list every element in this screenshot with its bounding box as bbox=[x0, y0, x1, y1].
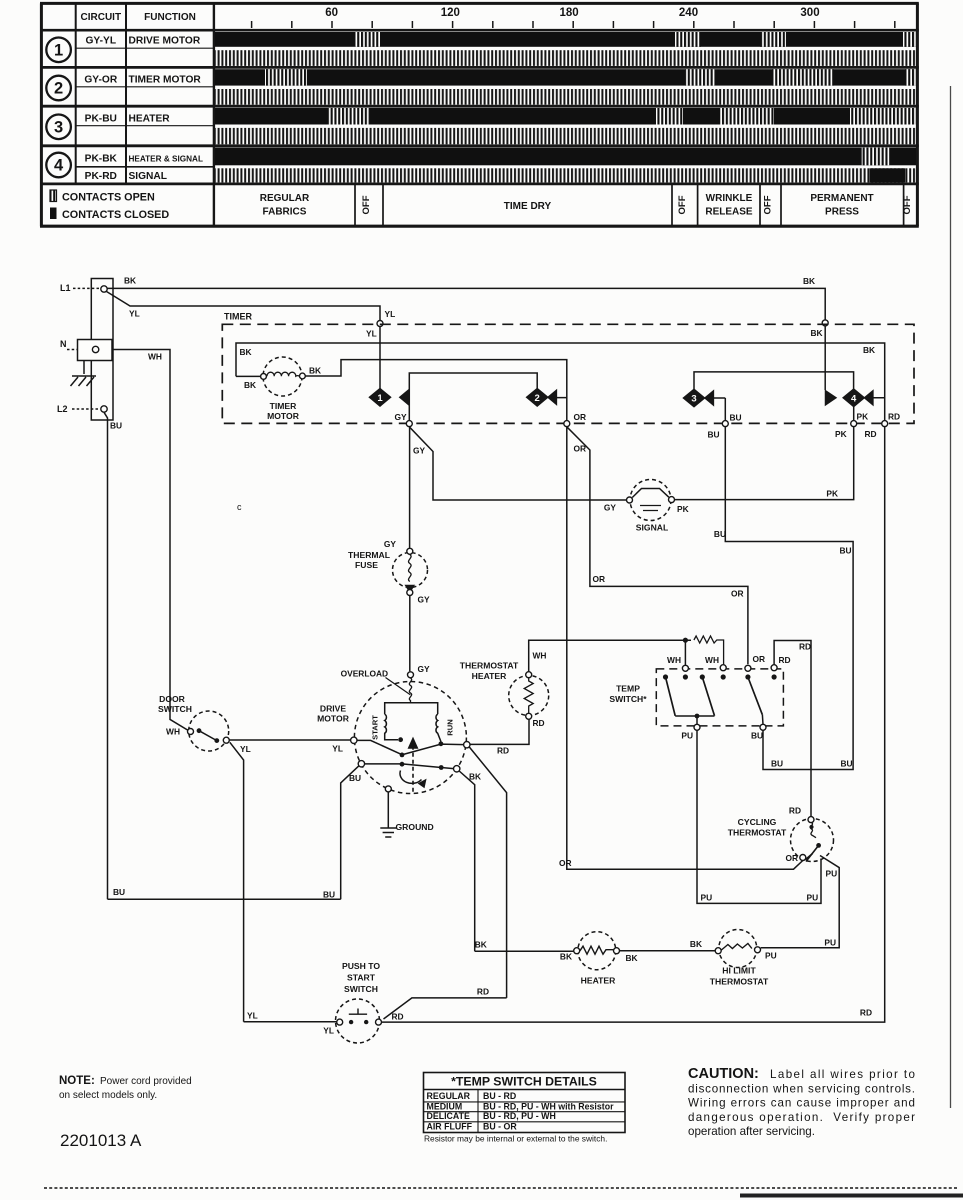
svg-text:1: 1 bbox=[54, 42, 63, 60]
motor terminal YL bbox=[332, 737, 357, 753]
svg-text:PU: PU bbox=[681, 731, 693, 741]
svg-text:Label all wires prior to: Label all wires prior to bbox=[770, 1068, 915, 1081]
svg-text:START: START bbox=[347, 973, 376, 983]
svg-text:BK: BK bbox=[560, 952, 572, 962]
resistor on WH line (temp switch) bbox=[683, 636, 724, 665]
wire WH: thermostat heater to temp switch bbox=[529, 640, 691, 671]
svg-text:PU: PU bbox=[765, 951, 777, 961]
svg-text:3: 3 bbox=[691, 394, 696, 405]
wire YL: door switch down to push-to-start bbox=[230, 742, 258, 1022]
svg-text:WH: WH bbox=[148, 352, 162, 362]
svg-text:DOOR: DOOR bbox=[159, 694, 186, 704]
temp switch blade 1 bbox=[666, 677, 676, 716]
svg-text:PK: PK bbox=[677, 504, 689, 514]
run winding bbox=[411, 703, 441, 742]
svg-text:BK: BK bbox=[244, 380, 256, 390]
svg-text:RD: RD bbox=[888, 412, 900, 422]
svg-text:PUSH TO: PUSH TO bbox=[342, 961, 380, 971]
svg-text:RD: RD bbox=[789, 806, 801, 816]
svg-text:GY: GY bbox=[418, 664, 431, 674]
svg-text:BU - RD: BU - RD bbox=[483, 1091, 516, 1101]
wire RD: motor down to push-to-start link bbox=[469, 747, 506, 998]
svg-text:RD: RD bbox=[392, 1012, 404, 1022]
node N terminal bbox=[60, 339, 112, 361]
svg-text:*TEMP SWITCH DETAILS: *TEMP SWITCH DETAILS bbox=[451, 1075, 597, 1089]
svg-text:240: 240 bbox=[679, 7, 698, 19]
node L1 terminal bbox=[60, 283, 107, 293]
hi-limit thermostat bbox=[690, 930, 777, 987]
cycle legend row bbox=[354, 184, 356, 226]
start winding bbox=[385, 703, 411, 740]
temp switch BU output bbox=[751, 715, 766, 741]
contact 4 (timer cam switch) bbox=[826, 389, 885, 421]
wire RD: bottom rail to right side bbox=[382, 427, 885, 1022]
svg-text:START: START bbox=[371, 715, 380, 740]
svg-text:TIME DRY: TIME DRY bbox=[504, 201, 552, 212]
wire BK: node to contact 4 left bbox=[824, 326, 826, 390]
svg-text:CYCLING: CYCLING bbox=[738, 817, 777, 827]
svg-text:BU: BU bbox=[113, 887, 125, 897]
svg-text:TIMER MOTOR: TIMER MOTOR bbox=[129, 75, 202, 86]
svg-text:YL: YL bbox=[247, 1011, 258, 1021]
drive motor bbox=[317, 664, 481, 837]
wire YL: to push-to-start bbox=[244, 1021, 337, 1023]
svg-text:BK: BK bbox=[811, 328, 823, 338]
svg-text:THERMOSTAT: THERMOSTAT bbox=[728, 828, 787, 838]
svg-text:YL: YL bbox=[385, 309, 396, 319]
svg-text:OFF: OFF bbox=[361, 195, 372, 214]
node PK below contact 4 bbox=[835, 412, 868, 440]
wire RD: motor to thermostat heater bbox=[470, 720, 529, 756]
svg-text:HEATER: HEATER bbox=[129, 114, 171, 125]
thermal fuse bbox=[348, 548, 430, 671]
svg-text:OFF: OFF bbox=[763, 195, 774, 214]
svg-text:BK: BK bbox=[124, 276, 136, 286]
svg-text:MEDIUM: MEDIUM bbox=[427, 1101, 463, 1111]
wire BK: heater to hi-limit bbox=[620, 950, 715, 952]
temp switch terminal RD bbox=[771, 655, 791, 671]
svg-text:THERMOSTAT: THERMOSTAT bbox=[460, 661, 519, 671]
svg-text:BK: BK bbox=[863, 345, 875, 355]
svg-text:FUSE: FUSE bbox=[355, 560, 378, 570]
node OR below contact 2 bbox=[564, 412, 586, 427]
wire BU: motor to left bottom rail bbox=[323, 766, 359, 900]
svg-text:N: N bbox=[60, 339, 67, 349]
motor terminal BK bbox=[454, 766, 482, 782]
door switch bbox=[158, 694, 251, 754]
svg-text:RD: RD bbox=[860, 1008, 872, 1018]
svg-text:OR: OR bbox=[785, 853, 798, 863]
svg-text:2: 2 bbox=[54, 80, 63, 98]
svg-text:RELEASE: RELEASE bbox=[705, 207, 753, 218]
svg-text:SWITCH: SWITCH bbox=[158, 704, 192, 714]
svg-text:SIGNAL: SIGNAL bbox=[636, 523, 668, 533]
scan artifact: right edge line bbox=[950, 86, 952, 1108]
svg-text:BK: BK bbox=[469, 772, 481, 782]
svg-text:120: 120 bbox=[441, 7, 460, 19]
centrifugal switch blade lower bbox=[365, 764, 454, 769]
svg-text:YL: YL bbox=[323, 1026, 334, 1036]
contacts legend bbox=[50, 190, 57, 202]
svg-text:HEATER & SIGNAL: HEATER & SIGNAL bbox=[129, 155, 203, 164]
svg-text:BK: BK bbox=[626, 953, 638, 963]
svg-text:GY: GY bbox=[413, 446, 426, 456]
svg-text:2201013 A: 2201013 A bbox=[60, 1131, 142, 1150]
thermostat heater bbox=[460, 661, 549, 729]
svg-text:CIRCUIT: CIRCUIT bbox=[81, 12, 122, 23]
svg-text:PK: PK bbox=[857, 412, 869, 422]
svg-text:BK: BK bbox=[803, 276, 815, 286]
svg-text:SIGNAL: SIGNAL bbox=[129, 171, 168, 182]
temp switch blade 2 bbox=[702, 677, 714, 716]
temp switch terminal WH 1 bbox=[667, 655, 688, 671]
signal buzzer bbox=[627, 480, 689, 533]
svg-text:BU - RD, PU - WH with Resistor: BU - RD, PU - WH with Resistor bbox=[483, 1101, 614, 1111]
node L2 terminal bbox=[57, 404, 107, 414]
svg-text:HEATER: HEATER bbox=[472, 671, 507, 681]
svg-text:c: c bbox=[237, 502, 242, 512]
svg-text:RD: RD bbox=[497, 746, 509, 756]
svg-text:GY-OR: GY-OR bbox=[84, 75, 117, 86]
wire BK: timer motor to contact 2 bbox=[305, 360, 567, 392]
svg-text:GY-YL: GY-YL bbox=[86, 36, 117, 47]
svg-text:PRESS: PRESS bbox=[825, 207, 859, 218]
wire BK: to heater bbox=[475, 950, 574, 952]
wire GY: node down to thermal fuse bbox=[384, 427, 410, 549]
svg-text:GY: GY bbox=[604, 503, 617, 513]
temp switch PU output bbox=[675, 714, 714, 741]
svg-text:BU: BU bbox=[730, 413, 742, 423]
svg-text:4: 4 bbox=[54, 157, 64, 175]
svg-text:RD: RD bbox=[799, 642, 811, 652]
svg-text:TIMER: TIMER bbox=[224, 312, 252, 322]
scan artifact: bottom perforation line bbox=[44, 1187, 958, 1189]
svg-text:BU: BU bbox=[751, 731, 763, 741]
svg-text:RD: RD bbox=[533, 718, 545, 728]
svg-text:BU: BU bbox=[708, 430, 720, 440]
temp switch blade 3 bbox=[748, 677, 763, 715]
svg-text:BU: BU bbox=[840, 546, 852, 556]
svg-text:BU: BU bbox=[841, 759, 853, 769]
cycling thermostat bbox=[728, 806, 834, 863]
wire RD: temp switch to cycling thermostat bbox=[774, 641, 811, 817]
svg-text:DELICATE: DELICATE bbox=[427, 1111, 470, 1121]
svg-text:BU: BU bbox=[110, 421, 122, 431]
temp switch terminal OR bbox=[745, 665, 751, 671]
svg-text:PK-BU: PK-BU bbox=[85, 114, 117, 125]
wire BU: L2 down left side bbox=[104, 412, 125, 899]
node BU below contact 3 bbox=[708, 413, 742, 440]
wire: link contact3 top to contact4 top bbox=[694, 372, 854, 389]
wire YL: node to contact 1 bbox=[379, 327, 381, 389]
svg-text:YL: YL bbox=[332, 744, 343, 754]
svg-text:PU: PU bbox=[807, 893, 819, 903]
svg-text:THERMAL: THERMAL bbox=[348, 550, 390, 560]
heater bbox=[560, 932, 638, 986]
wire GY: node to signal bbox=[409, 427, 626, 513]
circled row numbers bbox=[46, 38, 71, 63]
chart grid & bars bbox=[214, 32, 916, 47]
wire YL: L1 to timer bbox=[107, 292, 396, 321]
svg-text:CONTACTS OPEN: CONTACTS OPEN bbox=[62, 192, 155, 204]
svg-text:WRINKLE: WRINKLE bbox=[706, 193, 753, 204]
svg-text:NOTE:: NOTE: bbox=[59, 1075, 95, 1087]
svg-text:PK-RD: PK-RD bbox=[85, 171, 117, 182]
svg-text:RD: RD bbox=[477, 987, 489, 997]
centrifugal switch blade upper bbox=[357, 740, 402, 754]
ground (power cord) bbox=[71, 361, 97, 387]
svg-text:YL: YL bbox=[129, 309, 140, 319]
node GY below contact 1 bbox=[395, 412, 413, 427]
wire PK: contact 4 to signal bbox=[675, 407, 854, 500]
push to start switch bbox=[323, 961, 403, 1043]
svg-text:300: 300 bbox=[800, 7, 819, 19]
rotor arrow (dashed) bbox=[412, 747, 414, 792]
svg-text:BK: BK bbox=[309, 366, 321, 376]
svg-text:BK: BK bbox=[690, 939, 702, 949]
svg-text:REGULAR: REGULAR bbox=[427, 1091, 471, 1101]
svg-text:3: 3 bbox=[54, 119, 63, 137]
svg-text:HEATER: HEATER bbox=[581, 976, 616, 986]
motor terminal BU bbox=[349, 761, 365, 783]
svg-text:BK: BK bbox=[240, 347, 252, 357]
timer motor bbox=[236, 357, 321, 421]
wire YL: door switch to drive motor bbox=[230, 739, 351, 741]
svg-text:OFF: OFF bbox=[677, 195, 688, 214]
svg-text:180: 180 bbox=[560, 7, 579, 19]
wire PU: cycling thermostat to hi-limit bbox=[761, 856, 840, 948]
svg-text:FABRICS: FABRICS bbox=[263, 207, 307, 218]
svg-text:PERMANENT: PERMANENT bbox=[810, 193, 873, 204]
svg-text:RD: RD bbox=[779, 655, 791, 665]
svg-text:DRIVE: DRIVE bbox=[320, 704, 347, 714]
svg-text:disconnection when servicing c: disconnection when servicing controls. bbox=[688, 1082, 915, 1095]
svg-text:OVERLOAD: OVERLOAD bbox=[341, 669, 388, 679]
temp switch pivots bbox=[663, 674, 668, 679]
svg-text:SWITCH*: SWITCH* bbox=[609, 694, 647, 704]
svg-text:60: 60 bbox=[325, 7, 338, 19]
svg-text:TEMP: TEMP bbox=[616, 684, 640, 694]
svg-text:GROUND: GROUND bbox=[396, 822, 434, 832]
wire BU: contact 3 to temp switch bbox=[714, 427, 853, 770]
svg-text:GY: GY bbox=[395, 412, 408, 422]
contact 2 (timer cam switch) bbox=[527, 389, 567, 421]
temp switch dashed box bbox=[609, 669, 783, 726]
node BK entering timer box bbox=[811, 320, 829, 338]
svg-text:BU - RD, PU - WH: BU - RD, PU - WH bbox=[483, 1111, 556, 1121]
svg-text:PU: PU bbox=[826, 869, 838, 879]
svg-text:1: 1 bbox=[377, 393, 383, 404]
svg-text:WH: WH bbox=[166, 727, 180, 737]
svg-text:YL: YL bbox=[366, 329, 377, 339]
svg-text:OFF: OFF bbox=[902, 195, 913, 214]
svg-text:AIR FLUFF: AIR FLUFF bbox=[427, 1122, 473, 1132]
terminal block strip bbox=[91, 279, 113, 421]
svg-text:PK-BK: PK-BK bbox=[85, 154, 118, 165]
temp switch terminal WH 2 bbox=[705, 655, 726, 671]
node RD below contact 4 bbox=[865, 412, 901, 440]
svg-text:BU: BU bbox=[714, 529, 726, 539]
overload bbox=[341, 664, 430, 703]
svg-text:REGULAR: REGULAR bbox=[260, 193, 310, 204]
svg-text:THERMOSTAT: THERMOSTAT bbox=[710, 977, 769, 987]
motor terminal RD bbox=[464, 742, 470, 748]
svg-text:OR: OR bbox=[593, 574, 606, 584]
svg-text:OR: OR bbox=[731, 589, 744, 599]
wire OR: node down to cycling thermostat bbox=[559, 427, 803, 869]
svg-text:CONTACTS CLOSED: CONTACTS CLOSED bbox=[62, 209, 169, 221]
svg-text:operation after servicing.: operation after servicing. bbox=[688, 1125, 815, 1138]
svg-text:OR: OR bbox=[559, 858, 572, 868]
svg-text:WH: WH bbox=[533, 651, 547, 661]
svg-text:on select models only.: on select models only. bbox=[59, 1090, 157, 1101]
svg-text:BK: BK bbox=[475, 940, 487, 950]
svg-text:PK: PK bbox=[826, 489, 838, 499]
svg-text:L2: L2 bbox=[57, 404, 68, 414]
svg-text:OR: OR bbox=[753, 654, 766, 664]
svg-text:MOTOR: MOTOR bbox=[317, 714, 350, 724]
svg-text:Resistor may be internal or ex: Resistor may be internal or external to … bbox=[424, 1134, 607, 1144]
svg-text:dangerous operation. Verify p: dangerous operation. Verify proper bbox=[688, 1111, 915, 1124]
wire: contact1 out / link to contact2 top bbox=[409, 373, 537, 423]
ground stub from motor bbox=[380, 786, 433, 837]
wire BK: L1 to timer (top) bbox=[108, 276, 826, 320]
svg-text:FUNCTION: FUNCTION bbox=[144, 12, 196, 23]
svg-text:WH: WH bbox=[705, 655, 719, 665]
temp switch details table bbox=[424, 1073, 626, 1133]
svg-text:YL: YL bbox=[240, 744, 251, 754]
svg-text:BU - OR: BU - OR bbox=[483, 1122, 517, 1132]
svg-text:PU: PU bbox=[824, 938, 836, 948]
svg-text:PU: PU bbox=[701, 893, 713, 903]
svg-text:PK: PK bbox=[835, 429, 847, 439]
contact 1 (timer cam switch) bbox=[370, 389, 409, 406]
svg-text:GY: GY bbox=[384, 539, 397, 549]
svg-text:4: 4 bbox=[851, 393, 857, 404]
svg-text:GY: GY bbox=[418, 595, 431, 605]
svg-text:SWITCH: SWITCH bbox=[344, 984, 378, 994]
wire BK timer inner top rail bbox=[236, 343, 885, 390]
svg-text:HI LIMIT: HI LIMIT bbox=[722, 966, 756, 976]
svg-text:OR: OR bbox=[574, 412, 587, 422]
svg-text:CAUTION:: CAUTION: bbox=[688, 1066, 759, 1082]
wire BK: motor down to heater bbox=[459, 771, 487, 951]
svg-text:WH: WH bbox=[667, 655, 681, 665]
svg-text:Power cord provided: Power cord provided bbox=[100, 1076, 192, 1087]
svg-text:OR: OR bbox=[574, 444, 587, 454]
svg-text:RD: RD bbox=[865, 429, 877, 439]
wire RD: push-to-start up link to motor RD bbox=[384, 987, 507, 1020]
timer dashed box bbox=[222, 312, 914, 424]
rotation arrow bbox=[400, 771, 422, 784]
wire OR: branch to temp switch bbox=[567, 427, 765, 665]
svg-text:DRIVE MOTOR: DRIVE MOTOR bbox=[129, 36, 201, 47]
node YL entering timer box bbox=[366, 321, 383, 339]
svg-text:2: 2 bbox=[535, 393, 540, 404]
wire WH: N to door switch bbox=[112, 350, 190, 732]
svg-text:RUN: RUN bbox=[446, 719, 455, 735]
svg-text:L1: L1 bbox=[60, 283, 71, 293]
svg-text:BU: BU bbox=[771, 759, 783, 769]
wire PU: temp switch to cycling thermostat bbox=[697, 731, 821, 904]
contact 3 (timer cam switch) bbox=[684, 389, 726, 420]
svg-text:TIMER: TIMER bbox=[270, 401, 298, 411]
svg-text:MOTOR: MOTOR bbox=[267, 411, 300, 421]
svg-text:Wiring errors can cause improp: Wiring errors can cause improper and bbox=[688, 1097, 915, 1110]
svg-text:BU: BU bbox=[323, 890, 335, 900]
svg-text:BU: BU bbox=[349, 773, 361, 783]
wire BU: bottom rail bbox=[108, 898, 341, 900]
